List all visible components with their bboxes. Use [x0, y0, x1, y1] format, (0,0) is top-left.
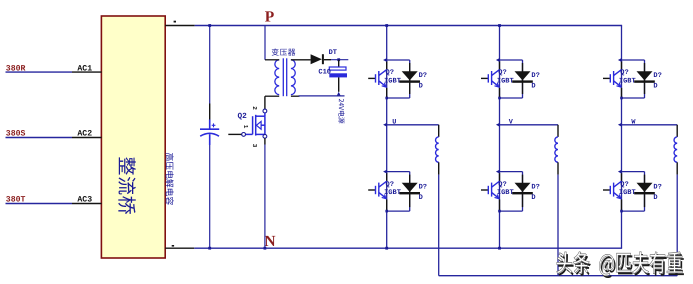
junction arrow at phase node W	[618, 123, 622, 127]
wire transformer primary top to P	[264, 26, 266, 60]
svg-text:Q?: Q?	[620, 181, 628, 189]
junction arrow collector	[496, 58, 500, 62]
pin AC1 of rectifier bridge	[72, 71, 102, 73]
emitter pin of Q? (black)	[621, 88, 623, 97]
junction dot emitter	[620, 97, 623, 100]
drain pin circle of Q2	[263, 109, 267, 113]
junction at C10 top	[337, 58, 340, 61]
junction on N rail at bus cap	[208, 247, 211, 250]
transformer label 变压器	[272, 48, 296, 55]
gate wire of Q?	[481, 77, 488, 79]
collector pin of Q? (black)	[386, 61, 388, 70]
wire diode branch top	[500, 171, 523, 173]
emitter pin of Q? (black)	[499, 88, 501, 97]
emitter pin of Q? (black)	[621, 199, 623, 210]
svg-text:Q?: Q?	[498, 69, 506, 77]
wire winding U to star point	[438, 175, 440, 276]
wire diode branch vertical	[522, 60, 524, 98]
svg-text:C10: C10	[318, 69, 331, 77]
svg-text:AC3: AC3	[77, 196, 92, 205]
junction arrow at 24V node	[337, 92, 341, 96]
svg-text:Q?: Q?	[386, 69, 394, 77]
junction dot emitter	[385, 210, 388, 213]
pin 1 of bus capacitor (black)	[209, 104, 211, 120]
junction arrow at phase node V	[496, 123, 500, 127]
junction arrow collector	[383, 58, 387, 62]
svg-text:DT: DT	[329, 49, 337, 57]
inductor L? motor winding U	[436, 137, 439, 162]
wire bus-cap branch upper	[209, 26, 211, 104]
gate wire of Q?	[603, 77, 610, 79]
collector pin of Q? (black)	[386, 173, 388, 182]
rectifier label 整流桥 (rotated)	[118, 157, 136, 214]
svg-text:Q2: Q2	[238, 112, 248, 121]
wire diode branch vertical	[644, 60, 646, 98]
pin AC2 of rectifier bridge	[72, 137, 102, 139]
junction arrow collector	[618, 58, 622, 62]
junction on N rail leg V	[498, 247, 501, 250]
svg-text:D?: D?	[531, 184, 539, 192]
wire inverter leg U vertical	[386, 26, 388, 249]
svg-text:D?: D?	[531, 72, 539, 80]
pin number 2 of Q2	[251, 106, 258, 110]
emitter arrow of Q?	[495, 83, 499, 87]
wire winding V to star point	[557, 175, 559, 276]
svg-text:D: D	[531, 82, 535, 90]
svg-text:380T: 380T	[6, 196, 26, 205]
emitter pin of Q? (black)	[499, 199, 501, 210]
collector pin of Q? (black)	[499, 173, 501, 182]
diode DT cathode lead (black)	[324, 59, 331, 61]
capacitor C? (bus electrolytic)	[200, 120, 219, 146]
svg-text:IGBT: IGBT	[384, 189, 401, 197]
wire diode output node	[331, 59, 348, 61]
transistor Q? IGBT symbol	[610, 181, 621, 198]
wire diode branch vertical	[644, 172, 646, 212]
wire bus-cap branch lower	[209, 145, 211, 248]
collector pin of Q? (black)	[621, 61, 623, 70]
transistor Q? IGBT symbol	[376, 69, 387, 86]
inductor L? motor winding V	[555, 137, 558, 162]
wire diode branch bottom	[500, 210, 523, 212]
pin AC3 of rectifier bridge	[72, 203, 102, 205]
junction arrow collector	[618, 170, 622, 174]
junction on N rail at Q2	[264, 247, 267, 250]
junction dot emitter	[620, 210, 623, 213]
pin 2 (drain) of Q2 (black, from transformer lead)	[264, 96, 266, 109]
diode D? (freewheel, black)	[402, 71, 418, 80]
junction on P rail leg V	[498, 24, 501, 27]
net label 24V电源 (rotated)	[338, 99, 344, 124]
wire diode branch vertical	[409, 172, 411, 212]
wire P rail	[195, 25, 622, 27]
wire winding W to star point	[676, 175, 678, 276]
junction arrow collector	[383, 170, 387, 174]
pin 3 (source) of Q2 (black)	[264, 138, 266, 144]
wire Q2 source to N rail	[264, 145, 266, 249]
svg-text:IGBT: IGBT	[497, 189, 514, 197]
svg-text:Q?: Q?	[386, 181, 394, 189]
body arrow of Q2	[256, 121, 261, 129]
svg-text:IGBT: IGBT	[619, 189, 636, 197]
wire diode branch bottom	[622, 97, 645, 99]
pin of motor winding V (black top)	[557, 125, 559, 137]
junction dot emitter	[385, 97, 388, 100]
junction arrow collector	[496, 170, 500, 174]
gate wire of Q?	[368, 77, 375, 79]
pin of motor winding V (black bottom)	[557, 162, 559, 174]
transformer T? 变压器	[275, 58, 295, 96]
transformer pin leads (black)	[265, 60, 311, 96]
wire inverter leg W vertical	[621, 26, 623, 249]
wire diode branch bottom	[500, 97, 523, 99]
emitter arrow of Q?	[617, 83, 621, 87]
svg-text:AC2: AC2	[77, 130, 92, 139]
pin of motor winding W (black bottom)	[676, 162, 678, 174]
svg-text:D?: D?	[419, 72, 427, 80]
transistor Q? IGBT symbol	[376, 181, 387, 198]
source pin circle of Q2	[263, 134, 267, 138]
gate wire of Q?	[368, 189, 375, 191]
diode D? (freewheel, black)	[637, 71, 653, 80]
svg-text:380S: 380S	[6, 130, 26, 139]
wire diode branch vertical	[409, 60, 411, 98]
gate wire of Q?	[603, 189, 610, 191]
wire 24V output	[299, 95, 345, 97]
junction arrow at phase node U	[383, 123, 387, 127]
svg-text:3: 3	[251, 144, 258, 148]
svg-text:IGBT: IGBT	[497, 77, 514, 85]
transistor Q? IGBT symbol	[488, 181, 499, 198]
collector pin of Q? (black)	[621, 173, 623, 182]
svg-text:D: D	[653, 82, 657, 90]
wire inverter leg V vertical	[499, 26, 501, 249]
emitter arrow of Q?	[382, 83, 386, 87]
svg-text:U: U	[392, 119, 396, 127]
svg-text:Q?: Q?	[498, 181, 506, 189]
svg-text:AC1: AC1	[77, 64, 92, 73]
svg-text:380R: 380R	[6, 64, 26, 73]
emitter arrow of Q?	[617, 194, 621, 198]
wire star point bus	[439, 275, 678, 277]
wire diode branch top	[622, 59, 645, 61]
junction dot emitter	[498, 97, 501, 100]
pin number tick (bottom)	[172, 245, 174, 247]
wire phase V output	[500, 124, 559, 126]
svg-text:D?: D?	[653, 184, 661, 192]
diode D? (freewheel, black)	[637, 183, 653, 192]
collector pin of Q? (black)	[499, 61, 501, 70]
svg-text:1: 1	[242, 125, 249, 129]
gate pin circle of Q2	[242, 133, 246, 137]
pin number 1 of Q2	[242, 125, 249, 129]
pin number tick (top)	[174, 21, 176, 23]
svg-text:2: 2	[251, 106, 258, 110]
junction on P rail at bus cap	[208, 24, 211, 27]
wire diode branch top	[387, 59, 410, 61]
wire diode branch bottom	[387, 210, 410, 212]
wire phase W output	[622, 124, 678, 126]
svg-text:IGBT: IGBT	[384, 77, 401, 85]
diode D? (freewheel, black)	[402, 183, 418, 192]
junction on P rail leg U	[385, 24, 388, 27]
pin of motor winding U (black top)	[438, 125, 440, 137]
wire diode branch top	[387, 171, 410, 173]
pin number 3 of Q2	[251, 144, 258, 148]
svg-text:D?: D?	[653, 72, 661, 80]
wire AC input 380T	[6, 203, 73, 205]
wire diode branch bottom	[387, 97, 410, 99]
wire diode branch vertical	[522, 172, 524, 212]
svg-text:Q?: Q?	[620, 69, 628, 77]
wire AC input 380R	[6, 71, 73, 73]
watermark 头条@匹夫有重	[557, 252, 684, 278]
gate pin 1 of Q2 (black)	[228, 133, 242, 135]
emitter pin of Q? (black)	[386, 199, 388, 210]
emitter pin of Q? (black)	[386, 88, 388, 97]
capacitor C10 (electrolytic)	[329, 67, 346, 70]
pin - of C10 (black)	[338, 77, 340, 91]
transistor Q? IGBT symbol	[488, 69, 499, 86]
junction dot emitter	[498, 210, 501, 213]
pin of motor winding U (black bottom)	[438, 162, 440, 174]
svg-text:D: D	[419, 194, 423, 202]
svg-text:D: D	[419, 82, 423, 90]
wire N rail	[194, 247, 622, 249]
gate wire of Q?	[481, 189, 488, 191]
diode D? (freewheel, black)	[515, 71, 531, 80]
wire diode branch top	[622, 171, 645, 173]
MOSFET Q2 symbol	[246, 113, 265, 136]
pin - of rectifier bridge (bottom, black)	[165, 247, 194, 249]
wire phase U output	[387, 124, 439, 126]
pin + of rectifier bridge (top, black)	[165, 25, 195, 27]
diode D? (freewheel, black)	[515, 183, 531, 192]
rectifier bridge module U1 (yellow box)	[101, 16, 165, 258]
emitter arrow of Q?	[382, 194, 386, 198]
emitter arrow of Q?	[495, 194, 499, 198]
svg-text:IGBT: IGBT	[619, 77, 636, 85]
transistor Q? IGBT symbol	[610, 69, 621, 86]
svg-text:D?: D?	[419, 184, 427, 192]
svg-text:D: D	[653, 194, 657, 202]
wire AC input 380S	[6, 137, 73, 139]
pin of motor winding W (black top)	[676, 125, 678, 137]
pin + of C10 (black)	[338, 60, 340, 67]
wire diode branch top	[500, 59, 523, 61]
inductor L? motor winding W	[674, 137, 677, 162]
diode DT (flyback output rectifier)	[311, 54, 322, 64]
comment text 高压电解电容 (rotated, right of box)	[166, 153, 174, 205]
plus mark of bus capacitor	[212, 123, 216, 127]
svg-text:P: P	[265, 8, 275, 25]
svg-text:D: D	[531, 194, 535, 202]
wire diode branch bottom	[622, 210, 645, 212]
junction on N rail leg U	[385, 247, 388, 250]
